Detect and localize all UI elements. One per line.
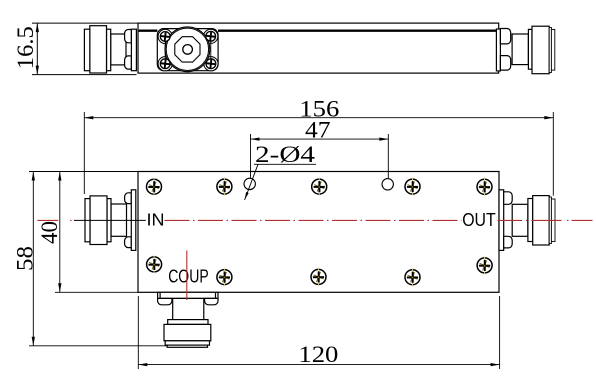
pin lower bbox=[504, 236, 513, 248]
dim 58 bottom extension bbox=[29, 345, 167, 347]
svg-text:16.5: 16.5 bbox=[13, 26, 38, 69]
pin lower bbox=[125, 237, 132, 248]
dim 47 dimension line bbox=[251, 138, 389, 140]
dim 156 arrow left bbox=[84, 116, 93, 119]
connector inner ring bbox=[166, 28, 208, 70]
dim 47 extension left inside body bbox=[250, 171, 252, 178]
screw lobe BR bbox=[204, 57, 218, 71]
screw column line left bbox=[164, 37, 166, 64]
dim 120 extension right bbox=[499, 296, 501, 369]
dim 120 extension left bbox=[137, 296, 139, 369]
step bbox=[528, 29, 532, 69]
screw lobe BL bbox=[158, 57, 172, 71]
ring bbox=[549, 28, 551, 73]
dim 58 arrow down bbox=[32, 337, 35, 346]
label 2-O4 leader line bbox=[245, 164, 258, 200]
svg-text:40: 40 bbox=[37, 221, 62, 244]
dim 47 arrow right bbox=[379, 137, 388, 140]
centerline red body bbox=[165, 219, 462, 221]
top view body bbox=[138, 23, 499, 73]
right connector (top view) bbox=[496, 26, 554, 73]
svg-text:47: 47 bbox=[305, 118, 331, 143]
centerline red right dash 3 bbox=[572, 219, 593, 221]
dim 47 extension right inside body bbox=[387, 171, 389, 178]
screw bottom-left corner bbox=[147, 255, 162, 273]
screw top 3 bbox=[312, 177, 327, 195]
ring bbox=[549, 197, 551, 244]
step bbox=[107, 29, 111, 70]
svg-text:IN: IN bbox=[147, 210, 165, 230]
dim 16.5 extension line top bbox=[32, 22, 138, 24]
pin upper bbox=[125, 30, 132, 43]
dim 156 arrow right bbox=[544, 116, 553, 119]
barrel bbox=[532, 26, 549, 73]
flange bbox=[496, 29, 500, 71]
ring bbox=[165, 341, 209, 345]
flange screw TL bbox=[160, 32, 170, 42]
boss left bbox=[158, 298, 172, 304]
dim 16.5 dimension line bbox=[36, 23, 38, 75]
dim 16.5 arrow down bbox=[36, 66, 39, 75]
barrel bbox=[533, 196, 550, 245]
centerline red right dot 2 bbox=[567, 219, 569, 221]
dim 47 extension right bbox=[387, 134, 389, 171]
OUT connector (right, side view) bbox=[499, 190, 555, 251]
back cap bbox=[84, 29, 89, 70]
IN connector (left, side view) bbox=[85, 190, 136, 251]
flange bbox=[131, 29, 136, 70]
centerline black through left connector bbox=[74, 219, 146, 221]
dim 40 dimension line bbox=[59, 172, 61, 293]
svg-text:58: 58 bbox=[12, 246, 37, 271]
dim 156 extension left bbox=[83, 112, 85, 194]
end cap bbox=[167, 345, 207, 347]
pin lower bbox=[500, 56, 510, 71]
label 2-O4 underline bbox=[254, 163, 316, 165]
end cap bbox=[551, 199, 555, 242]
dim 47 extension left bbox=[250, 134, 252, 171]
flange inner line right bbox=[215, 292, 217, 298]
coupling thick line left segment bbox=[139, 30, 158, 32]
screw column line right bbox=[210, 36, 212, 63]
connector outer circle bbox=[165, 27, 210, 72]
screw bottom-right corner bbox=[477, 256, 492, 274]
dim 156 dimension line bbox=[84, 117, 553, 119]
back cap bbox=[85, 199, 90, 242]
svg-text:2-Ø4: 2-Ø4 bbox=[255, 142, 316, 167]
dim 40 arrow up bbox=[58, 172, 61, 181]
end cap bbox=[551, 29, 554, 70]
front body bbox=[138, 172, 499, 293]
pin upper bbox=[125, 193, 132, 204]
dim 58 dimension line bbox=[32, 172, 34, 346]
dim 47 arrow left bbox=[251, 137, 260, 140]
screw top 4 bbox=[405, 177, 420, 195]
pin upper bbox=[500, 29, 510, 44]
hole 1 (2-O4) bbox=[244, 178, 255, 189]
flange screw BL bbox=[160, 59, 170, 69]
connector nut octagon bbox=[175, 37, 200, 62]
boss right bbox=[205, 298, 218, 304]
centerline red right dash 1 bbox=[498, 219, 523, 221]
screw bottom 3 bbox=[311, 268, 326, 286]
left connector (top view) bbox=[84, 26, 136, 73]
flange screw BR bbox=[206, 59, 216, 69]
neck bbox=[111, 34, 126, 65]
barrel bbox=[90, 196, 107, 245]
neck bbox=[173, 298, 204, 319]
screw top 1 bbox=[147, 178, 162, 196]
flange plate bbox=[158, 292, 218, 298]
flange screw TR bbox=[206, 31, 216, 41]
step bbox=[528, 199, 533, 242]
dim 58/40 shared top extension bbox=[29, 171, 138, 173]
svg-text:OUT: OUT bbox=[462, 210, 496, 230]
coupling port centerline red vertical bbox=[186, 251, 188, 301]
screw bottom 4 bbox=[405, 268, 420, 286]
neck bbox=[111, 204, 127, 236]
dim 156 extension right bbox=[552, 112, 554, 196]
centerline red left dash bbox=[37, 219, 58, 221]
pin lower bbox=[125, 56, 132, 69]
dim 40 bottom extension bbox=[55, 291, 138, 293]
dim 120 arrow right bbox=[491, 363, 500, 366]
svg-text:120: 120 bbox=[298, 342, 338, 367]
pin upper bbox=[504, 192, 513, 205]
neck bbox=[512, 204, 528, 236]
dim 120 arrow left bbox=[138, 363, 147, 366]
screw top 5 bbox=[477, 178, 492, 196]
COUP connector (bottom, pointing down) bbox=[158, 292, 218, 347]
dim 58 arrow up bbox=[32, 172, 35, 181]
flange bbox=[499, 190, 504, 251]
label 2-O4 leader arrowhead bbox=[245, 192, 249, 200]
screw lobe TR bbox=[204, 29, 218, 43]
barrel bbox=[90, 26, 107, 73]
svg-text:COUP: COUP bbox=[168, 267, 209, 287]
flange plate bbox=[157, 29, 218, 71]
dim 40 arrow down bbox=[58, 283, 61, 292]
dim 16.5 arrow up bbox=[36, 23, 39, 32]
centerline red left dot bbox=[70, 219, 71, 221]
screw lobe TL bbox=[158, 29, 172, 43]
dim 120 dimension line bbox=[138, 364, 499, 366]
coupling thick line right segment bbox=[218, 30, 498, 32]
hole 2 (2-O4) bbox=[382, 179, 393, 190]
centerline red right dot 1 bbox=[526, 219, 528, 221]
flange bbox=[131, 190, 136, 251]
dim 16.5 extension line bottom bbox=[32, 74, 137, 76]
coupling port flange (top view) bbox=[157, 27, 218, 72]
barrel bbox=[164, 324, 211, 340]
centerline red right dash 2 bbox=[532, 219, 562, 221]
screw top 2 bbox=[217, 177, 232, 195]
screw bottom 2 bbox=[217, 268, 232, 286]
step bbox=[107, 199, 111, 242]
center pin circle bbox=[183, 45, 193, 55]
flange inner line left bbox=[159, 292, 161, 298]
neck bbox=[512, 34, 528, 65]
step bbox=[168, 320, 208, 325]
